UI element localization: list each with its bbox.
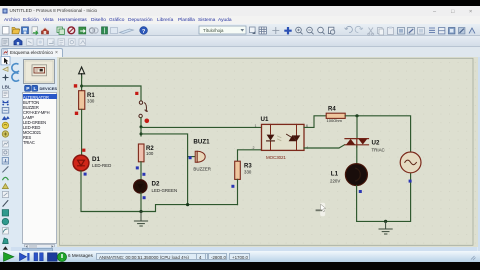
svg-text:100: 100 <box>146 151 154 156</box>
wire U1 pin2 to R3 <box>238 150 262 161</box>
alternator V1 <box>400 152 421 173</box>
svg-text:330: 330 <box>87 99 95 104</box>
resistor R4 <box>326 107 345 124</box>
sheet dropdown <box>199 26 246 34</box>
svg-text:330: 330 <box>244 169 252 174</box>
voltage indicator dots red <box>74 84 149 152</box>
tab icon <box>3 50 8 55</box>
voltage indicator dots blue <box>84 156 412 199</box>
wire node C to buzzer column <box>141 134 188 205</box>
wire node A to button <box>82 86 141 101</box>
svg-text:?: ? <box>142 29 146 35</box>
toolbar1 icons <box>3 27 148 36</box>
rotate buttons <box>12 64 19 82</box>
svg-text:Título/hoja: Título/hoja <box>203 28 224 33</box>
svg-text:L: L <box>34 86 37 92</box>
svg-text:BUZZER: BUZZER <box>193 167 211 172</box>
node B junction <box>140 125 143 128</box>
list scrollbar arrows <box>26 245 54 248</box>
resistor R3 <box>235 161 253 179</box>
sim control buttons <box>4 252 67 261</box>
node E junction (buzzer column to rail) <box>186 203 189 206</box>
svg-text:R4: R4 <box>328 107 336 113</box>
svg-text:220V: 220V <box>330 178 340 183</box>
power terminal <box>79 67 85 78</box>
lamp L1 <box>330 164 367 186</box>
wire R4 to node F <box>345 116 410 152</box>
wire D2 to ground rail <box>140 193 142 212</box>
wire node F to triac <box>356 116 358 138</box>
svg-text:L1: L1 <box>331 171 339 178</box>
wire triac to lamp <box>356 146 358 164</box>
optocoupler U1 <box>253 116 309 160</box>
main area <box>0 57 480 251</box>
triac U2 <box>345 139 385 153</box>
title bar <box>0 6 480 16</box>
svg-text:D1: D1 <box>92 156 100 163</box>
ground (left) <box>134 212 147 227</box>
node G junction (ground) <box>384 220 387 223</box>
wire R1 to D1 <box>81 109 83 155</box>
svg-text:DEVICES: DEVICES <box>40 86 58 91</box>
wire R3 to rail <box>237 179 239 204</box>
LED D2 (green, off) <box>134 180 177 193</box>
status right grip <box>471 256 476 260</box>
wire R2 to D2 <box>140 162 142 180</box>
resistor R2 <box>138 144 154 162</box>
svg-text:U2: U2 <box>372 139 380 146</box>
svg-text:BUZ1: BUZ1 <box>193 138 210 145</box>
preview pane <box>24 60 55 84</box>
toolbar2 icons <box>2 38 86 45</box>
app icon <box>3 9 8 14</box>
svg-text:LED-GREEN: LED-GREEN <box>152 188 178 193</box>
svg-text:LBL: LBL <box>2 84 11 89</box>
button SW <box>139 101 147 118</box>
mouse cursor <box>316 203 326 216</box>
node F junction <box>355 114 358 117</box>
svg-text:1: 1 <box>255 124 257 128</box>
ground (right) <box>379 221 392 234</box>
node C junction <box>140 132 143 135</box>
svg-text:2: 2 <box>253 146 255 150</box>
wire node B to U1 pin1 <box>141 126 262 128</box>
LED D1 (red, lit) <box>73 155 111 171</box>
toolbars <box>0 24 480 36</box>
resistor R1 <box>79 91 96 110</box>
svg-text:TRIAC: TRIAC <box>372 147 385 152</box>
status bar <box>0 251 480 262</box>
wire button to node B <box>140 118 142 136</box>
wire lamp to bottom rail <box>357 173 411 222</box>
tab bar <box>0 47 480 57</box>
wire U1 pin4 to triac gate <box>304 145 345 148</box>
wire D1 to bottom-left rail <box>81 171 238 212</box>
menu bar <box>0 16 480 24</box>
svg-text:100Ohm: 100Ohm <box>327 118 343 123</box>
svg-text:MOC3021: MOC3021 <box>266 155 286 160</box>
sheet border <box>60 58 474 245</box>
node A junction <box>80 85 83 88</box>
left toolbar strip icons <box>1 57 11 250</box>
wire U1 pin6 to R4 <box>304 116 326 128</box>
node D junction <box>139 210 142 213</box>
svg-text:D2: D2 <box>152 180 160 187</box>
P L buttons + header <box>25 85 58 92</box>
buzzer BUZ1 <box>193 138 211 171</box>
toolbar1 right icons <box>250 26 476 35</box>
svg-text:LED-RED: LED-RED <box>92 163 111 168</box>
wire terminal to node A <box>81 76 83 91</box>
wire buzzer stub <box>188 156 196 158</box>
svg-text:U1: U1 <box>261 116 269 123</box>
